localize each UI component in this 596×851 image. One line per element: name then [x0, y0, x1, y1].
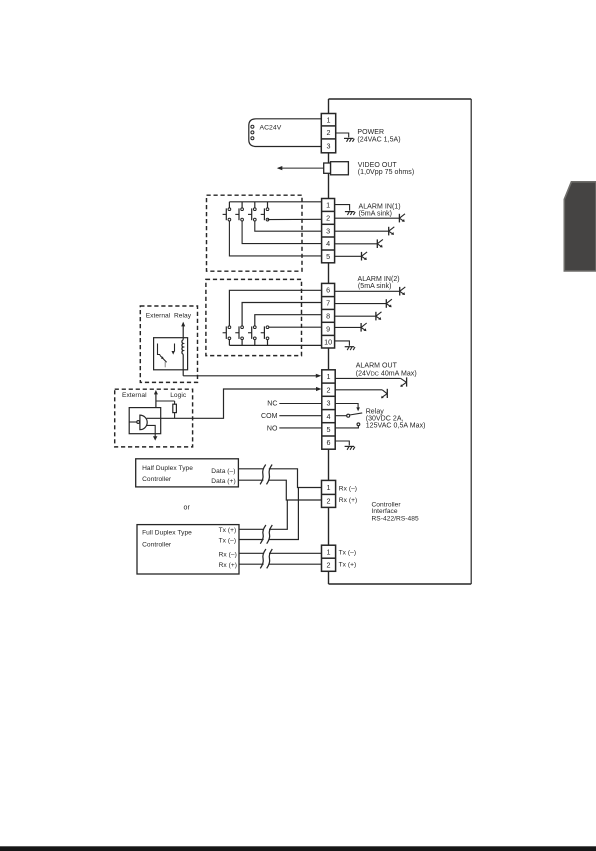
- svg-text:3: 3: [327, 141, 331, 150]
- svg-text:Controller: Controller: [142, 476, 172, 483]
- svg-text:1: 1: [326, 201, 330, 210]
- svg-text:or: or: [184, 505, 191, 512]
- svg-text:6: 6: [327, 438, 331, 447]
- svg-text:Tx (–): Tx (–): [339, 550, 357, 557]
- svg-text:Relay: Relay: [366, 408, 385, 415]
- svg-text:Rx (+): Rx (+): [219, 562, 237, 569]
- svg-text:5: 5: [326, 252, 330, 261]
- svg-text:(24VAC 1,5A): (24VAC 1,5A): [357, 137, 400, 144]
- svg-text:(24VDC 40mA Max): (24VDC 40mA Max): [356, 371, 417, 378]
- svg-text:2: 2: [327, 128, 331, 137]
- svg-text:Data (+): Data (+): [211, 478, 235, 485]
- svg-text:Interface: Interface: [372, 508, 398, 515]
- svg-text:Full Duplex Type: Full Duplex Type: [142, 529, 192, 536]
- svg-text:4: 4: [327, 412, 331, 421]
- svg-text:External: External: [122, 392, 147, 399]
- svg-text:ALARM OUT: ALARM OUT: [356, 362, 398, 369]
- svg-text:COM: COM: [261, 413, 278, 420]
- svg-text:4: 4: [326, 239, 330, 248]
- svg-text:Tx (+): Tx (+): [339, 562, 357, 569]
- svg-text:6: 6: [326, 286, 330, 295]
- svg-text:3: 3: [326, 226, 330, 235]
- svg-text:3: 3: [327, 399, 331, 408]
- svg-text:2: 2: [326, 213, 330, 222]
- svg-text:2: 2: [327, 560, 331, 569]
- svg-text:Controller: Controller: [142, 541, 172, 548]
- svg-text:Tx (+): Tx (+): [219, 527, 237, 534]
- svg-text:(1,0Vpp 75 ohms): (1,0Vpp 75 ohms): [358, 169, 414, 176]
- svg-text:Rx (–): Rx (–): [219, 552, 237, 559]
- svg-text:Rx (+): Rx (+): [339, 497, 357, 504]
- svg-text:POWER: POWER: [357, 129, 384, 136]
- svg-text:Logic: Logic: [170, 392, 187, 399]
- svg-text:Data (–): Data (–): [211, 468, 235, 475]
- svg-text:1: 1: [327, 483, 331, 492]
- svg-text:1: 1: [327, 372, 331, 381]
- svg-text:Half Duplex Type: Half Duplex Type: [142, 465, 193, 472]
- svg-text:NC: NC: [267, 401, 277, 408]
- svg-text:Tx (–): Tx (–): [219, 538, 237, 545]
- svg-text:External: External: [146, 313, 171, 320]
- svg-text:8: 8: [326, 311, 330, 320]
- svg-text:9: 9: [326, 324, 330, 333]
- svg-text:NO: NO: [267, 425, 278, 432]
- svg-text:RS-422/RS-485: RS-422/RS-485: [372, 516, 419, 523]
- svg-text:ALARM IN(1): ALARM IN(1): [359, 203, 401, 210]
- svg-text:AC24V: AC24V: [260, 124, 282, 131]
- svg-text:(5mA sink): (5mA sink): [358, 283, 392, 290]
- svg-text:7: 7: [326, 299, 330, 308]
- svg-text:2: 2: [327, 497, 331, 506]
- svg-text:10: 10: [324, 337, 332, 346]
- svg-text:1: 1: [327, 115, 331, 124]
- svg-text:(30VDC 2A,: (30VDC 2A,: [366, 416, 404, 423]
- svg-text:Rx (–): Rx (–): [339, 486, 357, 493]
- svg-text:2: 2: [327, 385, 331, 394]
- svg-text:125VAC 0,5A Max): 125VAC 0,5A Max): [366, 423, 426, 430]
- svg-text:(5mA sink): (5mA sink): [359, 210, 393, 217]
- svg-text:Relay: Relay: [174, 313, 192, 320]
- svg-text:5: 5: [327, 425, 331, 434]
- svg-text:1: 1: [327, 547, 331, 556]
